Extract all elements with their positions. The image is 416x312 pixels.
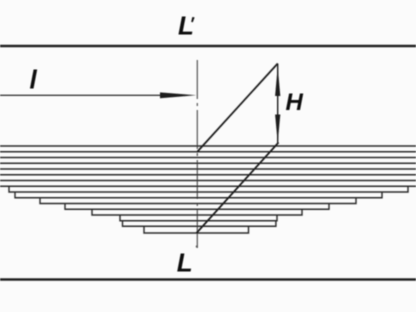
leaf 16 bottom edge xyxy=(144,226,249,233)
svg-text:L: L xyxy=(177,248,193,278)
prime mark of L' xyxy=(191,17,194,22)
leaf line 7 xyxy=(0,180,416,182)
dimension H upper arrowhead xyxy=(275,67,280,97)
leaf line 8 xyxy=(0,185,416,187)
dimension l arrowhead xyxy=(160,92,196,98)
leaf line 5 xyxy=(0,168,416,170)
svg-text:L: L xyxy=(178,11,194,41)
center axis end dot xyxy=(196,245,198,247)
leaf spring stack xyxy=(0,146,416,233)
svg-text:l: l xyxy=(30,65,38,95)
leaf 11 xyxy=(40,198,356,204)
leaf 14 xyxy=(120,215,277,221)
dimension l leader line xyxy=(0,94,170,96)
leaf 9 xyxy=(9,186,408,192)
diagonal A (upper) xyxy=(198,64,278,152)
leaf line 6 xyxy=(0,174,416,176)
leaf 15 xyxy=(123,221,276,227)
dimension H line xyxy=(277,64,279,144)
dimension line H (vertical with arrowheads) xyxy=(275,64,280,144)
dimension H lower arrowhead xyxy=(275,115,280,144)
leaf 10 xyxy=(15,192,382,198)
center axis line (dash-dot) xyxy=(196,60,198,248)
top frame line xyxy=(0,45,416,47)
dimension arrow l (horizontal) xyxy=(0,92,196,98)
leaf line 4 xyxy=(0,162,416,164)
bottom frame line xyxy=(0,278,416,280)
leaf line 2 xyxy=(0,151,416,153)
leaf line 3 xyxy=(0,157,416,159)
leaf 13 xyxy=(92,209,302,215)
leaf line 1 xyxy=(0,145,416,147)
diagonal B (lower) xyxy=(197,143,279,234)
svg-text:H: H xyxy=(286,89,304,116)
leaf 12 xyxy=(65,204,329,210)
